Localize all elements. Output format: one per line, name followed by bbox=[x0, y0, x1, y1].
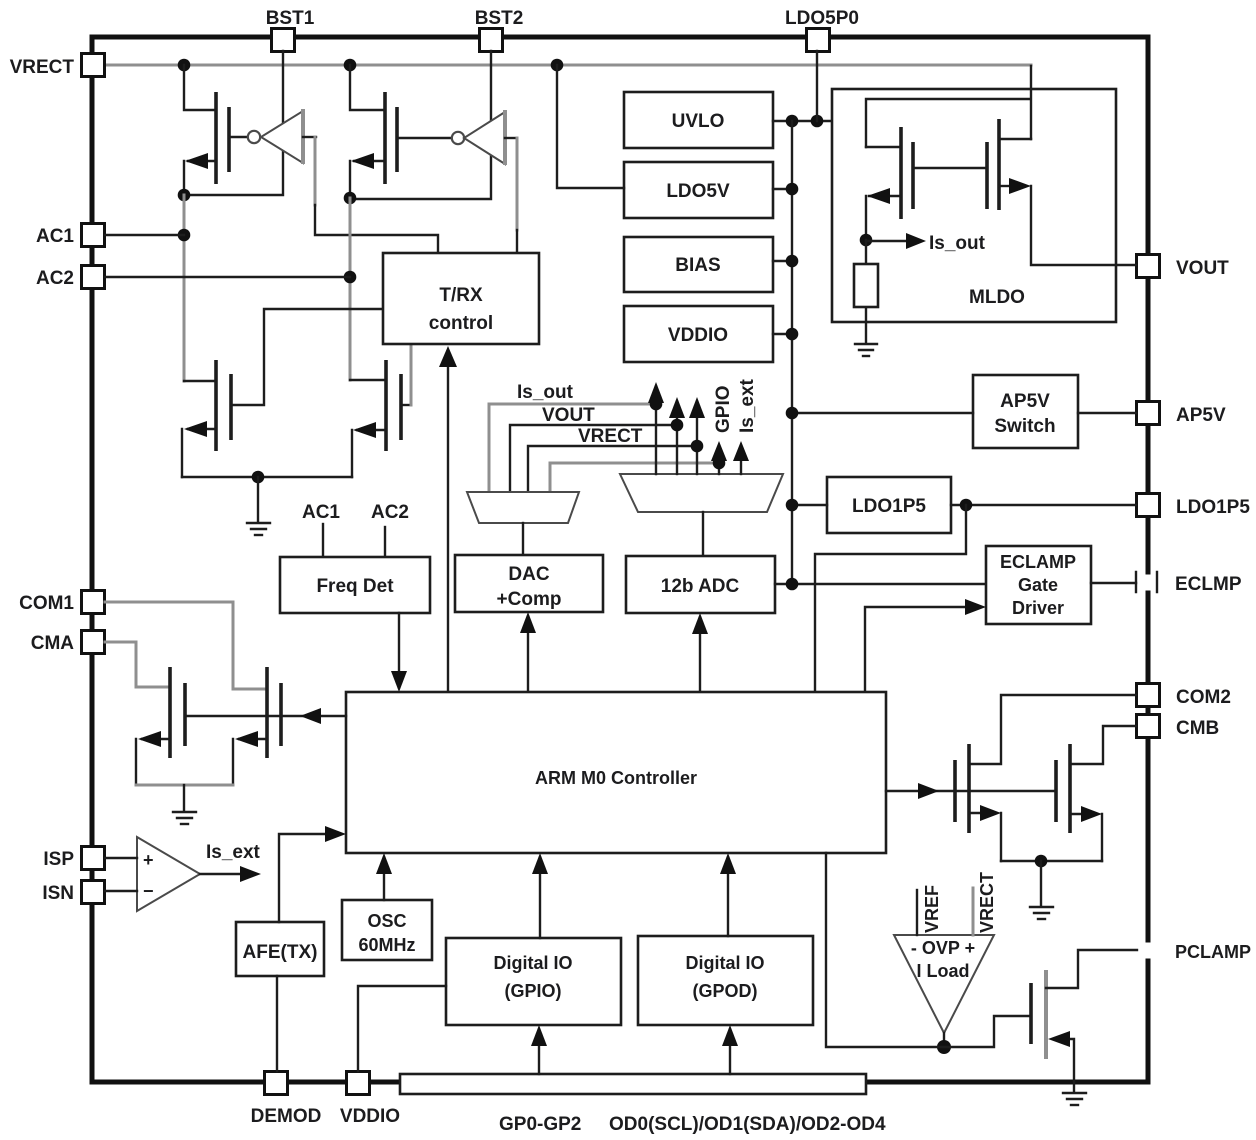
svg-text:12b ADC: 12b ADC bbox=[661, 576, 740, 597]
svg-text:I Load: I Load bbox=[917, 961, 970, 981]
mux MUX1 (DAC input select) bbox=[467, 492, 579, 523]
node low-side source junction bbox=[252, 471, 265, 484]
node AC1 junction bbox=[178, 229, 191, 242]
signal VRECT into DAC mux bbox=[528, 426, 697, 492]
ground PCLAMP bbox=[1063, 1093, 1086, 1105]
pin DEMOD bbox=[251, 1072, 322, 1128]
block UVLO bbox=[624, 92, 773, 148]
svg-text:+: + bbox=[143, 850, 154, 870]
wire rail to LDO1P5 bbox=[792, 504, 827, 506]
wire BST1 drop bbox=[184, 51, 283, 195]
wire MLDO inner top feedback bbox=[866, 66, 1031, 147]
transistor Q2 (BST2 high-side FET) bbox=[350, 65, 397, 198]
wire mirror gate from ARM with arrow bbox=[886, 783, 1056, 799]
svg-text:AP5V: AP5V bbox=[1176, 405, 1226, 426]
wire AP5V Switch to pin bbox=[1078, 412, 1136, 414]
svg-text:OD0(SCL)/OD1(SDA)/OD2-OD4: OD0(SCL)/OD1(SDA)/OD2-OD4 bbox=[609, 1114, 886, 1135]
wire mirror common source (gray) bbox=[136, 784, 233, 787]
svg-text:COM2: COM2 bbox=[1176, 687, 1231, 708]
wire MUX2 channel 4 GPIO with arrow bbox=[711, 385, 734, 474]
svg-text:VRECT: VRECT bbox=[10, 57, 75, 78]
block T/RX control bbox=[383, 253, 539, 344]
bus GP0/OD bottom bus bar bbox=[400, 1074, 866, 1094]
svg-text:AC1: AC1 bbox=[36, 226, 74, 247]
block BIAS bbox=[624, 237, 773, 292]
svg-text:MLDO: MLDO bbox=[969, 287, 1025, 308]
wire ARM to ADC with arrow bbox=[692, 613, 708, 692]
signal mux input 4 (gray) bbox=[550, 463, 719, 492]
svg-text:Is_ext: Is_ext bbox=[737, 378, 758, 433]
pin COM2 bbox=[1137, 684, 1231, 709]
svg-text:GPIO: GPIO bbox=[713, 385, 734, 433]
svg-text:VRECT: VRECT bbox=[578, 426, 643, 447]
wire GPIO to ARM with arrow bbox=[532, 853, 548, 938]
svg-text:+Comp: +Comp bbox=[497, 589, 562, 610]
node VRECT junction dots bbox=[178, 59, 191, 72]
wire mirror common source bbox=[1001, 860, 1102, 862]
svg-text:Freq Det: Freq Det bbox=[316, 576, 394, 597]
wire ARM to clamp gate bbox=[826, 853, 1031, 1047]
inverter U1 bbox=[229, 109, 316, 164]
wire ARM to T/RX with arrow bbox=[439, 346, 457, 692]
svg-text:VOUT: VOUT bbox=[542, 405, 595, 426]
wire AC1 pin lead bbox=[105, 234, 184, 236]
wire low-side common source bbox=[182, 476, 352, 478]
block MLDO outline bbox=[832, 89, 1116, 322]
svg-text:BST1: BST1 bbox=[266, 8, 315, 29]
wire MLDO output to VOUT bbox=[1031, 186, 1136, 265]
wire MUX2 output bbox=[702, 512, 704, 556]
svg-text:- OVP +: - OVP + bbox=[911, 938, 975, 958]
pin VDDIO bbox=[340, 1072, 400, 1128]
svg-text:LDO5P0: LDO5P0 bbox=[785, 8, 859, 29]
inverter U2 bbox=[397, 110, 517, 165]
pin AC1 bbox=[36, 224, 105, 248]
wire ARM to ECLAMP driver with arrow bbox=[865, 599, 986, 692]
wire AC1 net vertical (gray) bbox=[183, 195, 186, 381]
svg-text:COM1: COM1 bbox=[19, 593, 74, 614]
svg-text:control: control bbox=[429, 313, 493, 334]
wire LDO5P0 pin drop bbox=[816, 51, 818, 121]
svg-text:Is_ext: Is_ext bbox=[206, 842, 261, 863]
signal Is_out into DAC mux bbox=[489, 382, 656, 492]
svg-text:AFE(TX): AFE(TX) bbox=[243, 942, 318, 963]
svg-text:AC2: AC2 bbox=[36, 268, 74, 289]
wire AC2 pin lead bbox=[105, 276, 350, 278]
transistor Q4 (low-side right FET) bbox=[350, 346, 411, 477]
pin ECLMP (border gap with tick bars) bbox=[1136, 572, 1242, 595]
svg-text:Gate: Gate bbox=[1018, 575, 1058, 595]
svg-text:Is_out: Is_out bbox=[929, 233, 986, 254]
svg-text:VRECT: VRECT bbox=[977, 872, 997, 933]
wire VRECT net (gray top rail) bbox=[104, 64, 1031, 67]
node mirror source junction bbox=[1035, 855, 1048, 868]
wire AC2 net vertical (gray) bbox=[349, 198, 352, 380]
wire MUX2 channel 2 with arrow bbox=[669, 397, 685, 474]
wire OSC to ARM with arrow bbox=[376, 853, 392, 900]
wire AC1 to Freq Det bbox=[322, 524, 324, 557]
svg-text:60MHz: 60MHz bbox=[358, 935, 415, 955]
mux MUX2 (ADC input select) bbox=[620, 474, 783, 512]
node Q1 source junction bbox=[178, 189, 191, 202]
svg-text:Is_out: Is_out bbox=[517, 382, 574, 403]
pin ISN bbox=[42, 881, 104, 905]
block VDDIO bbox=[624, 306, 773, 362]
ground MLDO bbox=[855, 344, 877, 356]
block LDO1P5 bbox=[827, 477, 951, 533]
block ARM M0 Controller bbox=[346, 692, 886, 853]
svg-text:BIAS: BIAS bbox=[675, 255, 720, 276]
wire VRECT to LDO5V input bbox=[557, 65, 624, 188]
resistor Rsense bbox=[854, 240, 878, 343]
transistor Q8 (COM1/CMA mirror right) bbox=[105, 602, 281, 785]
svg-text:PCLAMP: PCLAMP bbox=[1175, 942, 1251, 962]
block LDO5V bbox=[624, 162, 773, 218]
wire inverter U2 input from T/RX bbox=[516, 138, 519, 230]
block OSC 60MHz bbox=[342, 900, 432, 960]
svg-text:Digital IO: Digital IO bbox=[685, 953, 764, 973]
svg-text:Switch: Switch bbox=[994, 416, 1055, 437]
wire supply rail vertical bbox=[791, 121, 793, 584]
block Digital IO (GPIO) bbox=[446, 938, 621, 1025]
wire MUX1 output bbox=[522, 523, 524, 555]
wire Freq Det to ARM with arrow bbox=[391, 613, 407, 692]
wire UVLO output to MLDO bbox=[773, 120, 832, 122]
block Freq Det bbox=[280, 557, 430, 613]
wire rail to AP5V Switch bbox=[792, 412, 973, 414]
node dot UVLO-rail bbox=[786, 115, 799, 128]
op-amp U3 current sense bbox=[105, 837, 200, 911]
svg-text:CMA: CMA bbox=[31, 633, 75, 654]
svg-text:AC1: AC1 bbox=[302, 502, 340, 523]
svg-text:VREF: VREF bbox=[922, 885, 942, 933]
node dot LDO5P0 drop bbox=[811, 115, 824, 128]
wire inverter U1 input from T/RX bbox=[314, 137, 317, 205]
wire MUX2 channel 5 Is_ext with arrow bbox=[733, 378, 758, 474]
transistor Q9 (COM2 mirror left) bbox=[955, 695, 1136, 861]
pin VRECT bbox=[10, 54, 105, 79]
wire ECLAMP driver output to ECLMP pin bbox=[1091, 582, 1136, 584]
svg-text:ARM M0 Controller: ARM M0 Controller bbox=[535, 768, 697, 788]
pin AC2 bbox=[36, 266, 105, 290]
svg-text:VDDIO: VDDIO bbox=[340, 1106, 400, 1127]
transistor M5 (MLDO left PMOS) bbox=[866, 127, 913, 240]
wire VDDIO block output bbox=[773, 333, 792, 335]
wire comparator output node bbox=[943, 1033, 945, 1047]
transistor Q3 (low-side left FET) bbox=[182, 309, 383, 477]
block AP5V Switch bbox=[973, 375, 1078, 448]
pin ISP bbox=[43, 847, 104, 871]
svg-text:UVLO: UVLO bbox=[672, 111, 725, 132]
svg-text:DAC: DAC bbox=[508, 564, 549, 585]
svg-text:Driver: Driver bbox=[1012, 598, 1064, 618]
comparator U4 OVP / I Load bbox=[894, 872, 997, 1033]
block DAC+Comp bbox=[455, 555, 603, 612]
svg-text:VOUT: VOUT bbox=[1176, 258, 1229, 279]
pin COM1 bbox=[19, 591, 104, 615]
wire MUX2 channel 1 with arrow bbox=[648, 382, 664, 474]
svg-text:OSC: OSC bbox=[367, 911, 406, 931]
svg-text:−: − bbox=[143, 881, 154, 901]
svg-text:AP5V: AP5V bbox=[1000, 391, 1050, 412]
svg-text:DEMOD: DEMOD bbox=[251, 1106, 322, 1127]
ground low-side pair bbox=[247, 477, 270, 535]
svg-text:LDO1P5: LDO1P5 bbox=[1176, 497, 1250, 518]
wire bus to GPIO with arrow bbox=[531, 1025, 547, 1074]
svg-text:AC2: AC2 bbox=[371, 502, 409, 523]
pin LDO1P5 bbox=[1137, 494, 1251, 519]
transistor Q7 (COM1/CMA mirror left) bbox=[105, 642, 185, 785]
block AFE(TX) bbox=[236, 922, 324, 976]
svg-text:T/RX: T/RX bbox=[439, 285, 483, 306]
node Is_out sense bbox=[860, 234, 873, 247]
ground mirror left bbox=[173, 785, 196, 824]
svg-text:LDO5V: LDO5V bbox=[666, 181, 730, 202]
chip outer border bbox=[92, 37, 1148, 1082]
block Digital IO (GPOD) bbox=[638, 936, 813, 1025]
svg-text:(GPOD): (GPOD) bbox=[693, 981, 758, 1001]
svg-text:Digital IO: Digital IO bbox=[493, 953, 572, 973]
wire LDO5V output bbox=[773, 188, 792, 190]
svg-text:ECLMP: ECLMP bbox=[1175, 574, 1242, 595]
transistor Q11 (PCLAMP clamp FET) bbox=[1031, 950, 1137, 1092]
transistor M6 (MLDO right PMOS) bbox=[913, 119, 1031, 210]
pin BST1 bbox=[266, 8, 315, 52]
pin VOUT bbox=[1137, 255, 1230, 280]
svg-text:BST2: BST2 bbox=[475, 8, 524, 29]
ground COM2 mirror bbox=[1030, 861, 1053, 919]
block ECLAMP Gate Driver bbox=[986, 546, 1091, 624]
wire ADC to ECLAMP driver bbox=[775, 583, 986, 585]
wire AFE to DEMOD pin bbox=[276, 976, 278, 1071]
pin BST2 bbox=[475, 8, 524, 52]
wire mirror gate line from ARM with arrow bbox=[185, 708, 346, 724]
wire GPOD to ARM with arrow bbox=[720, 853, 736, 936]
node Q2 source junction bbox=[344, 192, 357, 205]
pin CMB bbox=[1137, 715, 1220, 740]
svg-text:ECLAMP: ECLAMP bbox=[1000, 552, 1076, 572]
block 12b ADC bbox=[626, 556, 775, 613]
signal arrow Is_out bbox=[866, 240, 908, 242]
svg-text:LDO1P5: LDO1P5 bbox=[852, 496, 926, 517]
wire bus to GPOD with arrow bbox=[722, 1025, 738, 1074]
pin LDO5P0 bbox=[785, 8, 859, 52]
wire LDO1P5 feedback to ARM bbox=[815, 505, 966, 692]
svg-text:(GPIO): (GPIO) bbox=[505, 981, 562, 1001]
wire AC2 to Freq Det bbox=[384, 527, 386, 557]
svg-text:ISN: ISN bbox=[42, 883, 74, 904]
transistor Q10 (CMB mirror right) bbox=[1056, 726, 1136, 861]
signal VOUT into DAC mux bbox=[510, 405, 677, 492]
node AC2 junction bbox=[344, 271, 357, 284]
wire MUX2 channel 3 with arrow bbox=[689, 397, 705, 474]
transistor Q1 (BST1 high-side FET) bbox=[184, 65, 229, 195]
wire AFE to ARM Is_ext with arrow bbox=[279, 826, 346, 922]
wire ARM to DAC with arrow bbox=[520, 612, 536, 692]
node LDO1P5 feedback junction bbox=[960, 499, 973, 512]
wire BIAS output bbox=[773, 260, 792, 262]
wire VDDIO pin to GPIO bbox=[358, 986, 446, 1071]
svg-text:CMB: CMB bbox=[1176, 718, 1219, 739]
pin CMA bbox=[31, 631, 105, 655]
svg-text:ISP: ISP bbox=[43, 849, 74, 870]
wire LDO1P5 to pin bbox=[951, 504, 1136, 506]
pin AP5V bbox=[1137, 402, 1226, 427]
signal arrow Is_ext opamp output bbox=[200, 842, 261, 882]
node rail-ADC junction bbox=[786, 578, 799, 591]
wire BST2 drop bbox=[350, 51, 491, 199]
svg-text:VDDIO: VDDIO bbox=[668, 325, 728, 346]
svg-text:GP0-GP2: GP0-GP2 bbox=[499, 1114, 581, 1135]
